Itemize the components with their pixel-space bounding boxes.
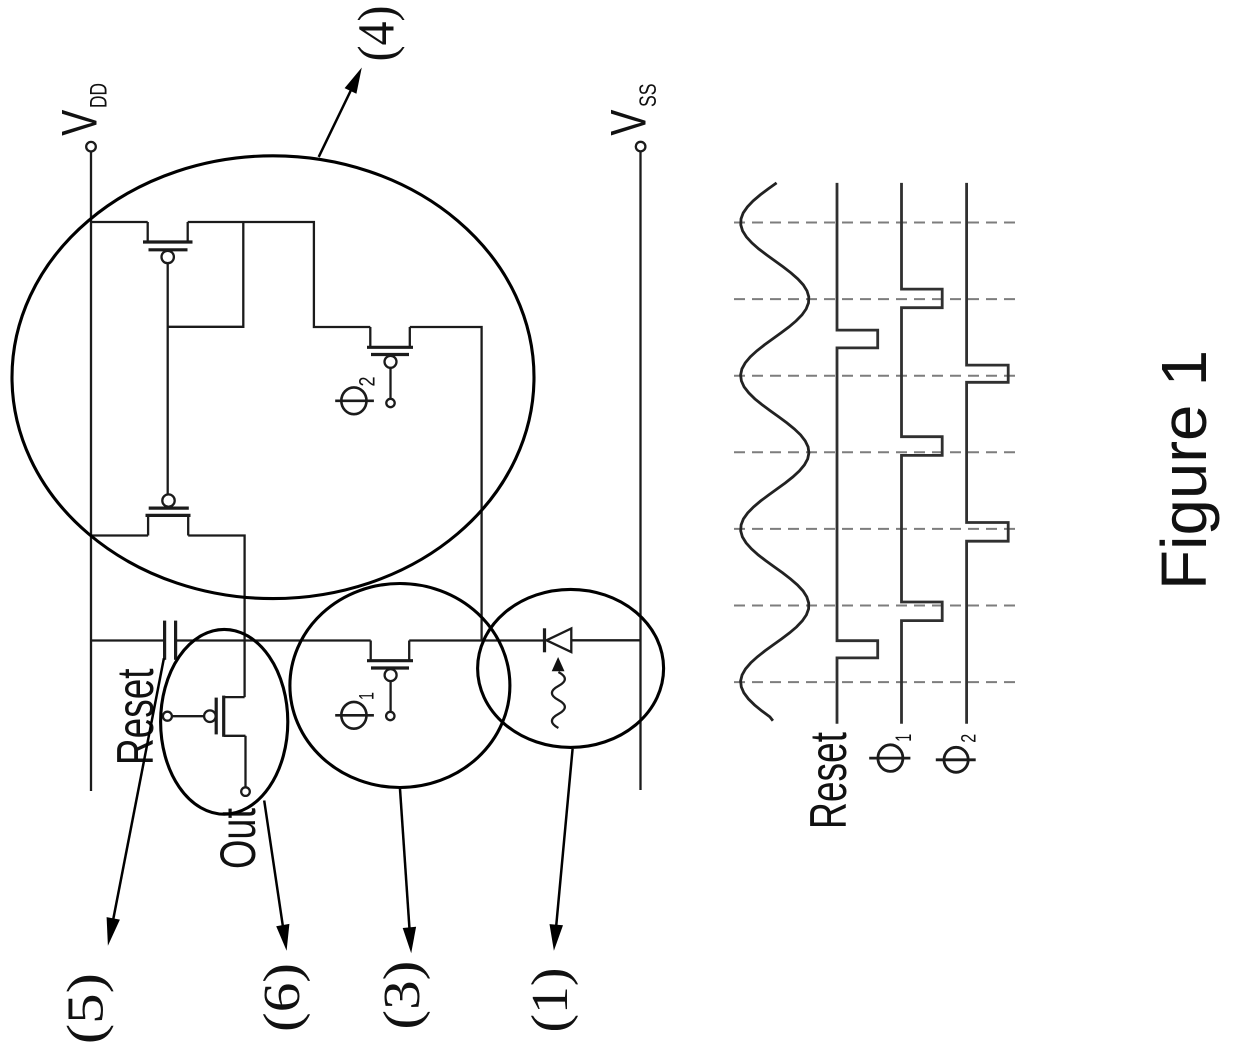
label Reset (timing) <box>800 732 858 829</box>
node Out terminal <box>241 787 250 796</box>
wire T1 drain down and jog to phi2 branch <box>188 222 371 327</box>
label phi1 (timing) <box>869 745 910 772</box>
transistor T1 (PMOS, diode-connected mirror input) <box>143 222 193 263</box>
waveform: phi2 trace <box>967 183 1009 724</box>
leader arrow to (5) <box>107 658 164 946</box>
svg-text:1: 1 <box>891 734 916 742</box>
leader arrow to (6) <box>264 801 289 951</box>
VDD terminal <box>86 142 96 152</box>
VDD label <box>52 83 113 136</box>
leader arrow to (4) <box>319 68 362 157</box>
wire gate bus T1-T2 <box>167 263 169 494</box>
label phi1 (circuit) <box>335 702 374 729</box>
label (5) <box>58 973 115 1044</box>
label phi2 (timing) <box>936 747 976 772</box>
wire VDD to T2 source <box>91 534 148 536</box>
svg-text:1: 1 <box>356 692 379 700</box>
transistor Q2 (PMOS switch, phi2) <box>367 327 413 407</box>
svg-text:2: 2 <box>355 377 380 387</box>
ellipse callout (4) <box>12 156 534 599</box>
ellipse callout (1) <box>478 589 664 747</box>
label (1) <box>522 968 579 1033</box>
waveform: phi1 trace <box>902 183 943 724</box>
label (3) <box>374 961 431 1030</box>
svg-text:V: V <box>52 109 108 135</box>
photodiode D1 <box>545 628 572 652</box>
wire VDD to capacitor <box>91 639 164 641</box>
svg-text:Out: Out <box>210 808 266 869</box>
wire gate-drain connection of T1 <box>168 222 244 327</box>
VSS terminal <box>636 142 646 152</box>
svg-text:(1): (1) <box>522 968 579 1033</box>
wire T2 drain to T3 <box>188 536 244 698</box>
waveform: output sine trace <box>741 183 809 721</box>
svg-text:Figure 1: Figure 1 <box>1148 350 1220 590</box>
leader arrow to (3) <box>400 788 416 954</box>
wire capacitor to Q1 <box>176 639 371 641</box>
power rail VDD <box>90 152 92 791</box>
capacitor C1 (reset capacitor) <box>165 621 176 660</box>
label (6) <box>254 963 311 1032</box>
label (4) <box>349 6 406 62</box>
transistor T2 (PMOS mirror output) <box>146 494 191 535</box>
svg-text:DD: DD <box>86 83 113 108</box>
svg-text:V: V <box>601 109 657 135</box>
wire photodiode to VSS rail <box>571 639 640 641</box>
label Figure 1 <box>1148 350 1220 590</box>
label phi2 (circuit) <box>335 387 374 414</box>
light arrow (photon input) <box>552 657 565 728</box>
svg-text:SS: SS <box>635 84 662 108</box>
svg-text:Reset: Reset <box>800 732 858 829</box>
svg-text:(5): (5) <box>58 973 115 1044</box>
svg-text:(3): (3) <box>374 961 431 1030</box>
transistor Q1 (PMOS switch, phi1) <box>367 641 413 721</box>
svg-text:2: 2 <box>958 734 981 743</box>
transistor T3 (output follower) <box>163 696 246 788</box>
label Out <box>210 808 266 869</box>
svg-text:Reset: Reset <box>107 668 165 765</box>
leader arrow to (1) <box>550 749 573 951</box>
label Reset (circuit) <box>107 668 165 765</box>
svg-text:(6): (6) <box>254 963 311 1032</box>
timing grid dashed lines <box>734 223 1017 683</box>
ellipse callout (3) <box>290 584 510 788</box>
power rail VSS <box>639 152 641 790</box>
ellipse callout (6) <box>161 629 288 814</box>
wire Q1 drain to photodiode <box>409 639 544 641</box>
waveform: Reset trace <box>837 183 878 724</box>
wire VDD to T1 source <box>91 221 148 223</box>
wire phi2 drain to sense branch <box>410 327 482 641</box>
VSS label <box>601 84 662 136</box>
svg-text:(4): (4) <box>349 6 406 62</box>
